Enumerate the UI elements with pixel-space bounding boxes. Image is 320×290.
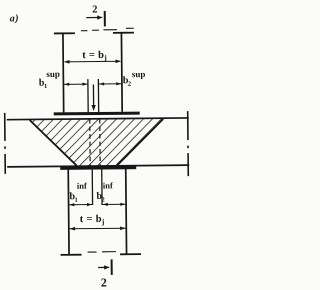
- arrows b2 inf: [103, 203, 126, 206]
- wall band bottom edge: [7, 165, 189, 167]
- bearing wedge hatched trapezoid: [30, 119, 164, 166]
- wedge left diagonal: [30, 120, 77, 166]
- joint strip left line (lower): [91, 170, 93, 205]
- joint strip right line (upper): [97, 79, 99, 112]
- lower column break line (dash-dot): [88, 251, 117, 253]
- wall band left boundary (dash-dot): [4, 113, 7, 174]
- lower column left edge: [67, 169, 70, 255]
- dimension arrows t top: [64, 59, 121, 63]
- upper column cut end bar right: [113, 32, 134, 34]
- lower column cut end bar right: [120, 253, 141, 255]
- upper bearing plate: [54, 112, 140, 116]
- upper column cut end bar left: [54, 32, 75, 34]
- arrows b1 sup: [64, 82, 87, 85]
- upper column break line (dash-dot): [81, 28, 134, 31]
- wall band right boundary (dash-dot): [187, 111, 190, 176]
- arrows t bottom: [70, 226, 126, 230]
- arrows b1 inf: [69, 203, 92, 206]
- upper column left edge: [62, 33, 65, 113]
- svg-text:2: 2: [92, 4, 97, 15]
- dimension line t=bj (top): [65, 60, 120, 63]
- svg-text:t = bj: t = bj: [82, 50, 107, 62]
- lower column right edge: [125, 169, 128, 255]
- svg-text:а): а): [10, 13, 19, 24]
- arrows b2 sup: [99, 82, 121, 85]
- dimension line b2 inf: [102, 203, 126, 205]
- section mark 2 top: view arrow: [86, 16, 102, 18]
- lower column cut end bar left: [61, 254, 82, 256]
- svg-text:2: 2: [101, 275, 107, 289]
- lower bearing plate: [60, 165, 136, 170]
- section mark 2 bottom: cut tick: [111, 259, 113, 274]
- wedge right diagonal: [117, 119, 164, 165]
- wall band top edge: [7, 118, 189, 120]
- joint strip right line (lower): [101, 169, 103, 204]
- dimension line b1 inf: [69, 204, 93, 206]
- svg-text:t = bj: t = bj: [80, 214, 105, 226]
- dimension line b2 sup: [98, 83, 121, 85]
- dimension line b1 sup: [63, 83, 87, 85]
- joint strip left line (upper): [87, 79, 89, 112]
- joint strip right dashed line through band: [99, 119, 101, 166]
- dimension line t=bj (bottom): [69, 227, 126, 230]
- section mark 2 top: cut tick: [104, 11, 106, 26]
- load arrow: [92, 85, 94, 106]
- section mark 2 bottom: view arrow: [98, 266, 109, 268]
- upper column right edge: [120, 32, 123, 112]
- joint strip left dashed line through band: [89, 119, 91, 166]
